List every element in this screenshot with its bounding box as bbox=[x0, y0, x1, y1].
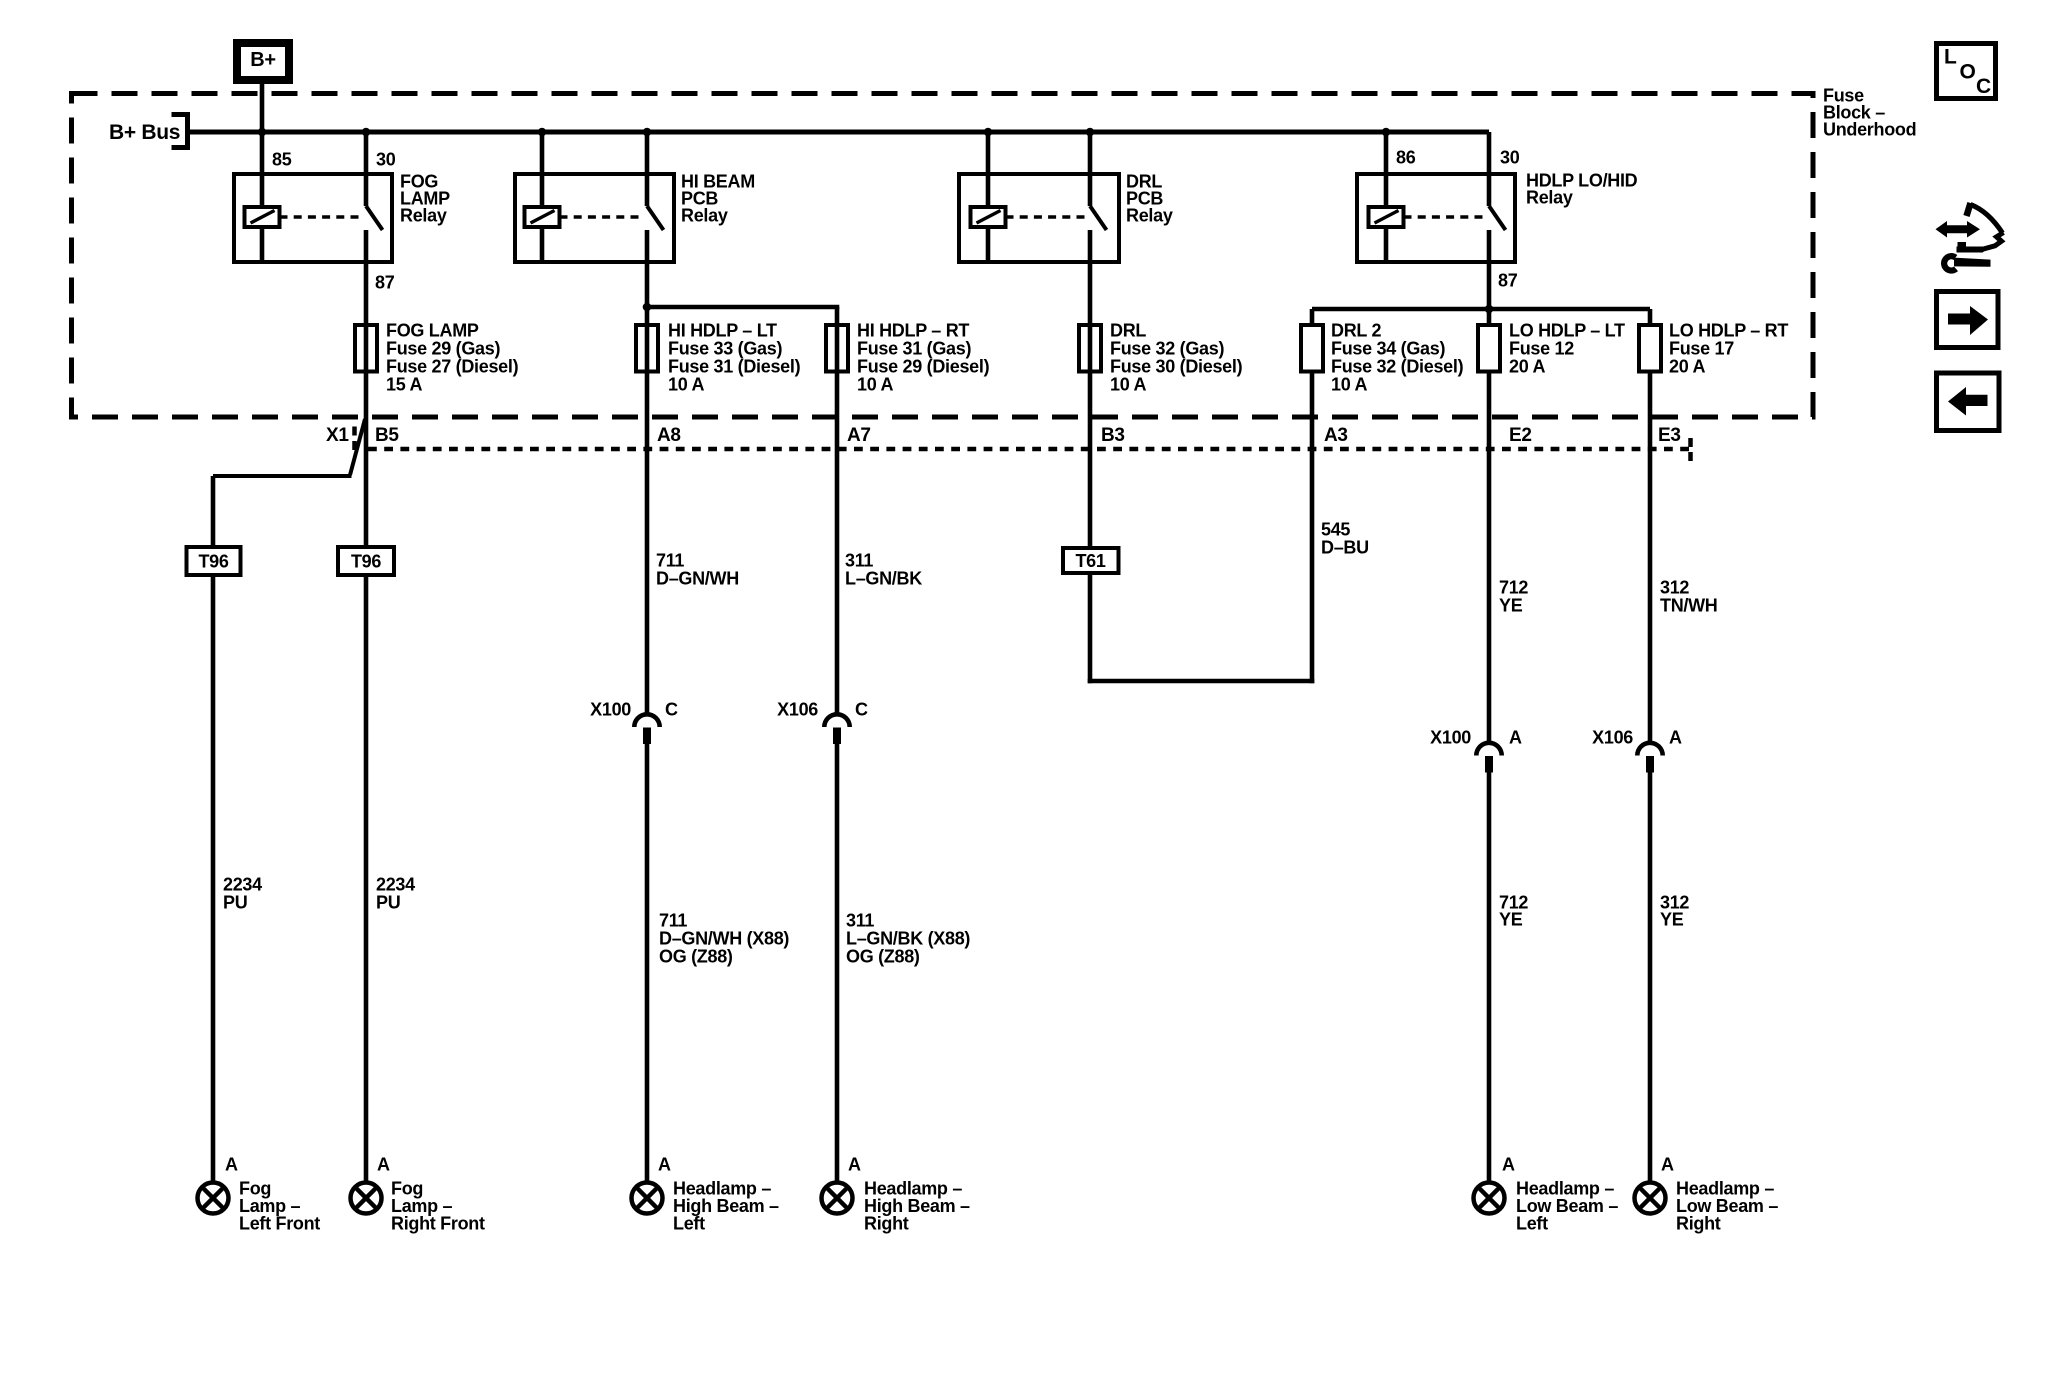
svg-text:Left Front: Left Front bbox=[239, 1213, 320, 1233]
svg-text:OG (Z88): OG (Z88) bbox=[846, 946, 920, 966]
svg-text:Fuse 12: Fuse 12 bbox=[1509, 338, 1574, 358]
svg-text:10 A: 10 A bbox=[668, 374, 704, 394]
svg-text:B+ Bus: B+ Bus bbox=[109, 121, 180, 144]
svg-text:A3: A3 bbox=[1324, 425, 1348, 446]
wire bus corner to hdlp relay 30 bbox=[1487, 132, 1492, 206]
svg-text:L–GN/BK: L–GN/BK bbox=[845, 568, 922, 588]
svg-text:L–GN/BK (X88): L–GN/BK (X88) bbox=[846, 928, 970, 948]
svg-text:A: A bbox=[1661, 1154, 1674, 1174]
svg-text:Fuse 32 (Diesel): Fuse 32 (Diesel) bbox=[1331, 356, 1464, 376]
junction node bus / hi beam relay coil bbox=[538, 128, 547, 137]
wire bus to hdlp relay coil 86 bbox=[1384, 132, 1389, 206]
svg-text:Relay: Relay bbox=[681, 205, 728, 225]
battery positive B+ box bbox=[237, 43, 289, 80]
connector X1 divider ticks bbox=[352, 427, 357, 452]
svg-text:2234: 2234 bbox=[376, 874, 415, 894]
wire T96 right to fog lamp bbox=[364, 577, 369, 1183]
junction node bus / fog relay 30 bbox=[362, 128, 371, 137]
svg-text:87: 87 bbox=[375, 272, 395, 292]
svg-text:C: C bbox=[665, 699, 678, 719]
svg-text:C: C bbox=[855, 699, 868, 719]
svg-text:Right: Right bbox=[864, 1213, 909, 1233]
wire branch to HI HDLP RT fuse bbox=[647, 305, 839, 310]
relay K4 HDLP LO/HID Relay bbox=[1357, 174, 1515, 262]
wire coil 85 lower half bbox=[260, 227, 265, 262]
wire bus to hi beam relay coil bbox=[540, 132, 545, 206]
fuse block underhood dashed boundary bbox=[72, 94, 1814, 418]
fuse DRL bbox=[1079, 325, 1101, 372]
wire T96 left to fog lamp bbox=[211, 577, 216, 1183]
icon hand outline bbox=[1967, 203, 1971, 216]
svg-text:A: A bbox=[658, 1154, 671, 1174]
wire hdlp coil lower half bbox=[1384, 227, 1389, 262]
wire fog relay 87 to fuse and connector bbox=[364, 230, 369, 545]
wire bus to hi beam relay 30 bbox=[645, 132, 650, 206]
wire B+ to bus and relay coil 85 bbox=[260, 80, 265, 207]
B+ bus wire bbox=[188, 130, 1489, 135]
svg-text:10 A: 10 A bbox=[1110, 374, 1146, 394]
svg-text:X106: X106 bbox=[1592, 727, 1633, 747]
svg-text:311: 311 bbox=[846, 910, 874, 930]
svg-text:D–BU: D–BU bbox=[1321, 537, 1369, 557]
wire X106 A to low beam right bbox=[1648, 772, 1653, 1183]
svg-text:T96: T96 bbox=[198, 551, 228, 571]
icon forward arrow box bbox=[1937, 292, 1999, 348]
svg-text:PU: PU bbox=[223, 892, 247, 912]
junction node B+ / bus bbox=[258, 128, 267, 137]
svg-text:HI HDLP – RT: HI HDLP – RT bbox=[857, 320, 969, 340]
relay K3 DRL PCB Relay bbox=[959, 174, 1119, 262]
fuse HI HDLP - LT bbox=[636, 325, 658, 372]
connector X106 A symbol bbox=[1637, 743, 1662, 756]
lamp E3 Headlamp High Beam Left bbox=[632, 1183, 663, 1214]
svg-text:30: 30 bbox=[1500, 147, 1520, 167]
wire bus to fog relay pin 30 bbox=[364, 132, 369, 206]
svg-text:Fuse 32 (Gas): Fuse 32 (Gas) bbox=[1110, 338, 1224, 358]
splice T96 right bbox=[338, 547, 394, 575]
junction node hi beam output branch bbox=[643, 303, 652, 312]
svg-text:311: 311 bbox=[845, 550, 873, 570]
svg-text:PU: PU bbox=[376, 892, 400, 912]
svg-text:Fuse 27 (Diesel): Fuse 27 (Diesel) bbox=[386, 356, 519, 376]
svg-text:Underhood: Underhood bbox=[1823, 119, 1916, 139]
wire HI HDLP RT to connector bbox=[835, 324, 840, 716]
wire A3 down bbox=[1310, 371, 1315, 683]
wire X106 C to headlamp right bbox=[835, 744, 840, 1183]
relay K1 FOG LAMP Relay bbox=[234, 174, 392, 262]
wire hdlp relay 87 output bbox=[1487, 230, 1492, 324]
connector X1 dotted boundary bbox=[368, 447, 1690, 452]
svg-text:DRL 2: DRL 2 bbox=[1331, 320, 1381, 340]
splice T61 bbox=[1063, 548, 1119, 573]
svg-text:20 A: 20 A bbox=[1509, 356, 1545, 376]
svg-text:A: A bbox=[225, 1154, 238, 1174]
svg-text:OG (Z88): OG (Z88) bbox=[659, 946, 733, 966]
wire drl relay output to fuse bbox=[1088, 230, 1093, 546]
svg-text:Fuse 30 (Diesel): Fuse 30 (Diesel) bbox=[1110, 356, 1243, 376]
svg-text:Fuse 17: Fuse 17 bbox=[1669, 338, 1734, 358]
B+ Bus bracket bbox=[172, 112, 190, 117]
wire hi beam relay output bbox=[645, 230, 650, 716]
lamp E1 Fog Lamp Left Front bbox=[198, 1183, 229, 1214]
fuse LO HDLP - RT bbox=[1639, 325, 1661, 372]
svg-text:Fuse 34 (Gas): Fuse 34 (Gas) bbox=[1331, 338, 1445, 358]
lamp E4 Headlamp High Beam Right bbox=[822, 1183, 853, 1214]
junction node bus / hi beam relay 30 bbox=[643, 128, 652, 137]
wire branch DRL2 / LO HDLP RT bbox=[1312, 307, 1650, 312]
svg-text:A7: A7 bbox=[847, 425, 871, 446]
svg-text:312: 312 bbox=[1660, 577, 1689, 597]
svg-text:D–GN/WH: D–GN/WH bbox=[656, 568, 739, 588]
wire bus to drl relay 30 bbox=[1088, 132, 1093, 206]
svg-text:B5: B5 bbox=[375, 425, 399, 446]
svg-text:712: 712 bbox=[1499, 577, 1528, 597]
svg-text:Right Front: Right Front bbox=[391, 1213, 485, 1233]
svg-text:E3: E3 bbox=[1658, 425, 1681, 446]
svg-text:711: 711 bbox=[656, 550, 684, 570]
svg-text:O: O bbox=[1960, 61, 1976, 84]
svg-text:FOG LAMP: FOG LAMP bbox=[386, 320, 479, 340]
fuse DRL 2 bbox=[1301, 325, 1323, 372]
svg-text:T96: T96 bbox=[351, 551, 381, 571]
svg-text:A: A bbox=[1502, 1154, 1515, 1174]
svg-text:545: 545 bbox=[1321, 519, 1350, 539]
svg-text:YE: YE bbox=[1499, 595, 1523, 615]
wire E3 to connector bbox=[1648, 371, 1653, 744]
svg-text:Left: Left bbox=[1516, 1213, 1548, 1233]
svg-text:X100: X100 bbox=[590, 699, 631, 719]
svg-text:85: 85 bbox=[272, 149, 292, 169]
svg-text:Left: Left bbox=[673, 1213, 705, 1233]
wire X100 A to low beam left bbox=[1487, 772, 1492, 1183]
svg-text:Fuse 31 (Gas): Fuse 31 (Gas) bbox=[857, 338, 971, 358]
svg-text:HI HDLP – LT: HI HDLP – LT bbox=[668, 320, 777, 340]
wire horizontal to left fog feed bbox=[213, 474, 352, 478]
svg-text:X1: X1 bbox=[326, 425, 349, 446]
svg-text:10 A: 10 A bbox=[1331, 374, 1367, 394]
svg-text:10 A: 10 A bbox=[857, 374, 893, 394]
svg-text:D–GN/WH (X88): D–GN/WH (X88) bbox=[659, 928, 789, 948]
lamp E6 Headlamp Low Beam Right bbox=[1635, 1183, 1666, 1214]
svg-text:TN/WH: TN/WH bbox=[1660, 595, 1717, 615]
lamp E5 Headlamp Low Beam Left bbox=[1474, 1183, 1505, 1214]
icon LOC box bbox=[1937, 44, 1996, 99]
wire E2 to connector bbox=[1487, 371, 1492, 744]
svg-text:A8: A8 bbox=[657, 425, 681, 446]
svg-text:A: A bbox=[1509, 727, 1522, 747]
wire X100 C to headlamp left bbox=[645, 744, 650, 1183]
icon back arrow box bbox=[1937, 373, 2000, 431]
wire bus to drl relay coil bbox=[986, 132, 991, 206]
fuse LO HDLP - LT bbox=[1478, 325, 1500, 372]
svg-text:X106: X106 bbox=[777, 699, 818, 719]
svg-text:YE: YE bbox=[1499, 909, 1523, 929]
svg-text:A: A bbox=[1669, 727, 1682, 747]
wire diagonal split at B5 bbox=[350, 419, 365, 475]
svg-text:Fuse 29 (Gas): Fuse 29 (Gas) bbox=[386, 338, 500, 358]
svg-text:T61: T61 bbox=[1075, 551, 1105, 571]
svg-text:Right: Right bbox=[1676, 1213, 1721, 1233]
svg-text:A: A bbox=[377, 1154, 390, 1174]
svg-text:86: 86 bbox=[1396, 147, 1416, 167]
wire drl coil lower half bbox=[986, 227, 991, 262]
svg-text:15 A: 15 A bbox=[386, 374, 422, 394]
junction node hdlp 87 branch bbox=[1485, 305, 1494, 314]
svg-text:E2: E2 bbox=[1509, 425, 1532, 446]
svg-text:LO HDLP – LT: LO HDLP – LT bbox=[1509, 320, 1625, 340]
svg-text:B+: B+ bbox=[250, 49, 276, 71]
svg-text:711: 711 bbox=[659, 910, 687, 930]
svg-text:YE: YE bbox=[1660, 909, 1684, 929]
relay K2 HI BEAM PCB Relay bbox=[515, 174, 674, 262]
svg-text:A: A bbox=[848, 1154, 861, 1174]
svg-text:Relay: Relay bbox=[1126, 205, 1173, 225]
junction node bus / drl relay coil bbox=[984, 128, 993, 137]
svg-text:L: L bbox=[1944, 46, 1957, 69]
svg-text:20 A: 20 A bbox=[1669, 356, 1705, 376]
connector X100 C symbol bbox=[634, 714, 659, 727]
svg-text:Fuse 29 (Diesel): Fuse 29 (Diesel) bbox=[857, 356, 990, 376]
connector X106 C symbol bbox=[824, 714, 849, 727]
wire T61 down bbox=[1088, 575, 1093, 683]
wire down to splice T96 left bbox=[211, 476, 216, 545]
wire hi beam coil lower half bbox=[540, 227, 545, 262]
lamp E2 Fog Lamp Right Front bbox=[351, 1183, 382, 1214]
fuse HI HDLP - RT bbox=[826, 325, 848, 372]
svg-text:LO HDLP – RT: LO HDLP – RT bbox=[1669, 320, 1788, 340]
fuse FOG LAMP bbox=[355, 325, 377, 372]
junction node bus / hdlp relay 86 bbox=[1382, 128, 1391, 137]
connector X1 right end tick bbox=[1688, 438, 1693, 462]
svg-text:Fuse 31 (Diesel): Fuse 31 (Diesel) bbox=[668, 356, 801, 376]
svg-text:2234: 2234 bbox=[223, 874, 262, 894]
svg-text:30: 30 bbox=[376, 149, 396, 169]
svg-text:C: C bbox=[1976, 75, 1991, 98]
connector X100 A symbol bbox=[1476, 743, 1501, 756]
svg-text:87: 87 bbox=[1498, 270, 1518, 290]
icon wrench bbox=[1944, 256, 1956, 270]
svg-text:Fuse 33 (Gas): Fuse 33 (Gas) bbox=[668, 338, 782, 358]
wire drl loop horizontal bbox=[1088, 679, 1315, 684]
svg-text:B3: B3 bbox=[1101, 425, 1125, 446]
svg-text:DRL: DRL bbox=[1110, 320, 1146, 340]
junction node bus / drl relay 30 bbox=[1086, 128, 1095, 137]
icon hand double arrow bbox=[1936, 221, 1981, 238]
svg-text:Relay: Relay bbox=[1526, 187, 1573, 207]
svg-text:Relay: Relay bbox=[400, 205, 447, 225]
svg-text:X100: X100 bbox=[1430, 727, 1471, 747]
splice T96 left bbox=[187, 547, 241, 575]
